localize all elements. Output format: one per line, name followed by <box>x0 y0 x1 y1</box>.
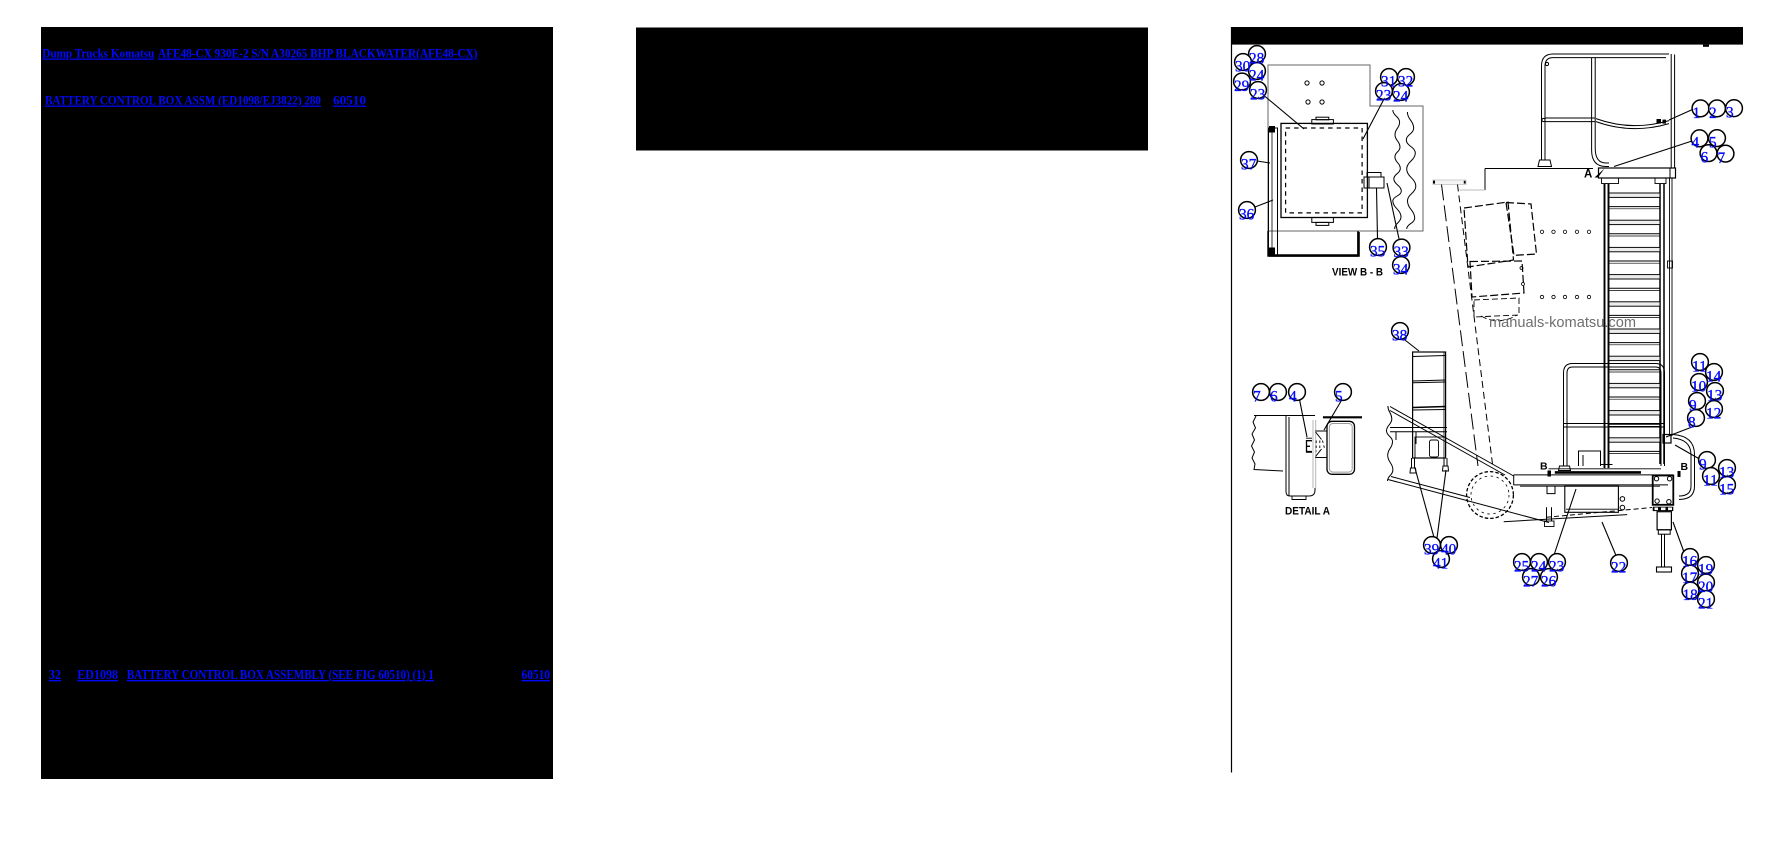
svg-text:B: B <box>1540 461 1548 473</box>
svg-text:35: 35 <box>1370 243 1386 260</box>
svg-text:11: 11 <box>1703 472 1718 489</box>
svg-text:3: 3 <box>1726 105 1734 122</box>
svg-text:8: 8 <box>1688 414 1696 431</box>
svg-text:13: 13 <box>1707 387 1723 404</box>
svg-text:4: 4 <box>1289 388 1297 405</box>
svg-text:4: 4 <box>1692 135 1700 152</box>
svg-text:20: 20 <box>1698 579 1714 596</box>
svg-text:7: 7 <box>1253 388 1261 405</box>
svg-text:11: 11 <box>1692 358 1707 375</box>
svg-text:21: 21 <box>1698 595 1713 612</box>
svg-text:DETAIL A: DETAIL A <box>1285 506 1330 518</box>
svg-text:26: 26 <box>1541 573 1557 590</box>
svg-text:2: 2 <box>1709 105 1717 122</box>
svg-text:AFE48-CX 930E-2 S/N A30265 BHP: AFE48-CX 930E-2 S/N A30265 BHP BLACKWATE… <box>158 47 478 61</box>
svg-text:BATTERY CONTROL BOX ASSM (ED10: BATTERY CONTROL BOX ASSM (ED1098/EJ3822)… <box>45 94 321 108</box>
svg-text:12: 12 <box>1706 405 1721 422</box>
svg-text:16: 16 <box>1682 553 1698 570</box>
svg-text:24: 24 <box>1393 88 1409 105</box>
svg-text:37: 37 <box>1241 156 1257 173</box>
svg-text:28: 28 <box>1249 50 1265 67</box>
svg-text:23: 23 <box>1250 86 1266 103</box>
svg-text:BATTERY CONTROL BOX ASSEMBLY (: BATTERY CONTROL BOX ASSEMBLY (SEE FIG 60… <box>127 667 434 682</box>
svg-text:29: 29 <box>1234 78 1250 95</box>
svg-text:60510: 60510 <box>522 667 551 682</box>
svg-text:ED1098: ED1098 <box>77 667 118 682</box>
svg-text:23: 23 <box>1376 87 1392 104</box>
svg-text:18: 18 <box>1683 587 1699 604</box>
svg-text:Dump Trucks Komatsu: Dump Trucks Komatsu <box>42 47 154 61</box>
svg-text:32: 32 <box>49 667 62 682</box>
svg-text:7: 7 <box>1718 150 1726 167</box>
svg-text:6: 6 <box>1701 150 1709 167</box>
svg-text:14: 14 <box>1706 368 1722 385</box>
svg-text:17: 17 <box>1682 570 1698 587</box>
svg-text:9: 9 <box>1689 397 1697 414</box>
svg-text:5: 5 <box>1709 135 1717 152</box>
svg-text:19: 19 <box>1698 561 1714 578</box>
svg-text:6: 6 <box>1270 388 1278 405</box>
svg-text:41: 41 <box>1433 555 1448 572</box>
svg-text:33: 33 <box>1394 244 1410 261</box>
svg-text:13: 13 <box>1719 464 1735 481</box>
svg-text:34: 34 <box>1393 261 1409 278</box>
svg-text:VIEW B - B: VIEW B - B <box>1332 267 1383 279</box>
svg-text:36: 36 <box>1239 206 1255 223</box>
svg-text:15: 15 <box>1719 481 1735 498</box>
svg-text:60510: 60510 <box>333 94 366 108</box>
svg-text:24: 24 <box>1249 67 1265 84</box>
svg-text:manuals-komatsu.com: manuals-komatsu.com <box>1489 315 1636 331</box>
svg-text:27: 27 <box>1523 573 1539 590</box>
svg-text:A: A <box>1584 169 1592 181</box>
svg-text:1: 1 <box>1693 105 1701 122</box>
svg-text:5: 5 <box>1335 388 1343 405</box>
svg-text:22: 22 <box>1611 559 1626 576</box>
svg-text:38: 38 <box>1392 327 1408 344</box>
svg-text:10: 10 <box>1691 378 1707 395</box>
svg-text:B: B <box>1681 461 1689 473</box>
svg-text:9: 9 <box>1699 456 1707 473</box>
